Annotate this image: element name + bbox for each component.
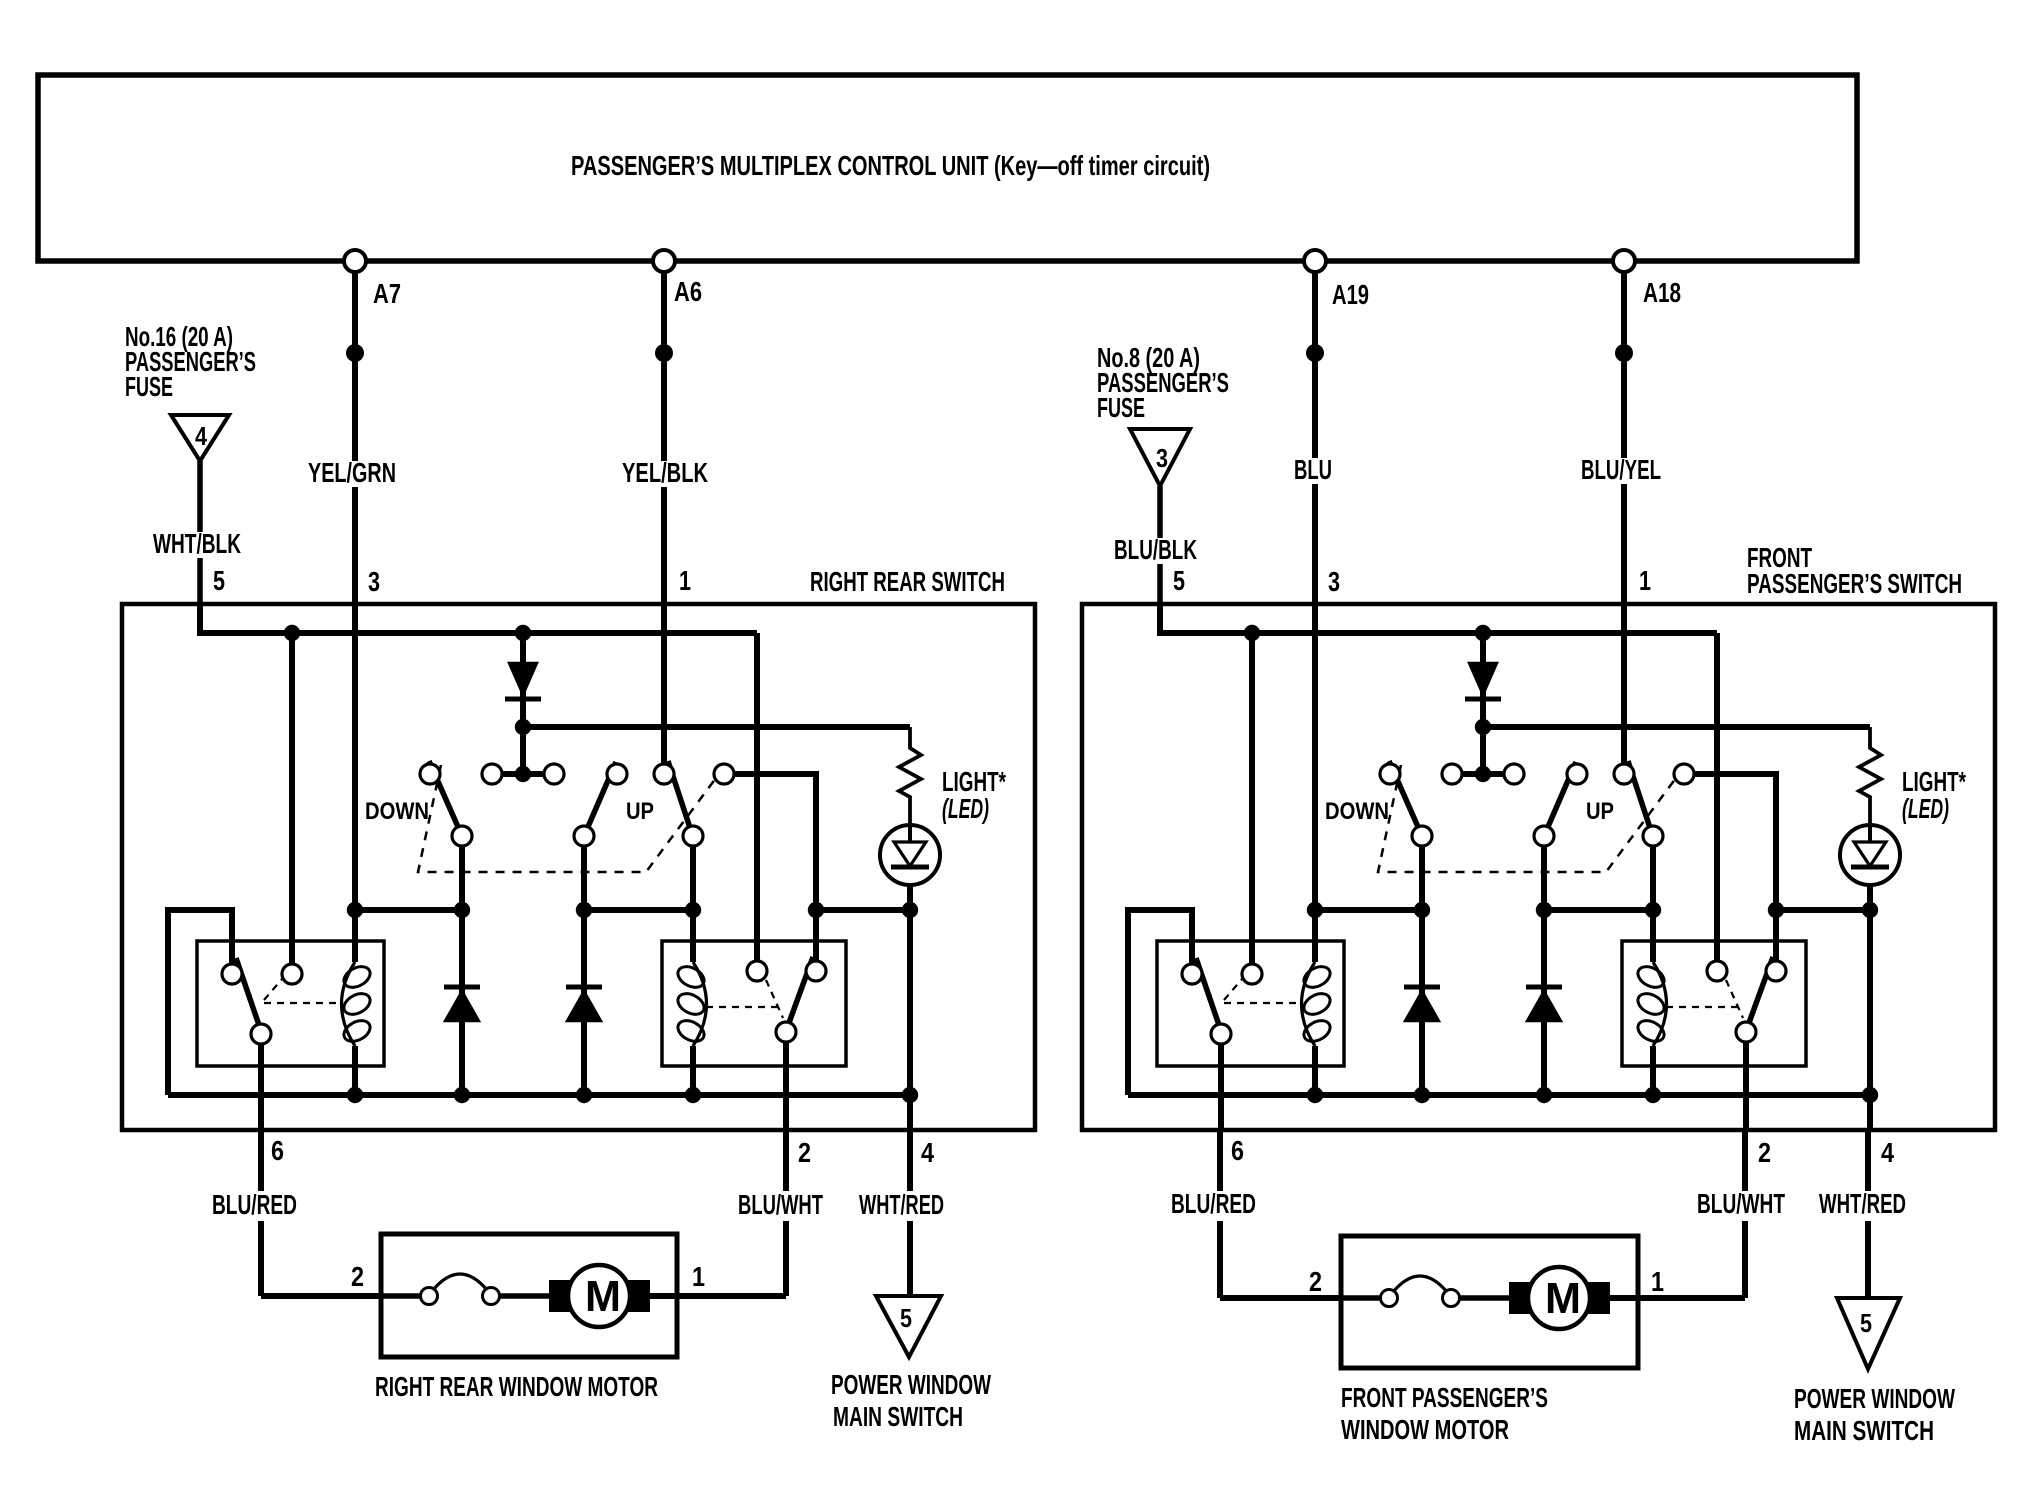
relay A lever — [1196, 958, 1221, 1031]
svg-text:BLU: BLU — [1294, 454, 1332, 485]
wire: ground bracket to relay A fixed contact — [168, 910, 232, 1095]
svg-text:M: M — [585, 1272, 621, 1321]
wire: relay A common to pin 6 — [1218, 1044, 1224, 1130]
svg-text:WINDOW MOTOR: WINDOW MOTOR — [1341, 1414, 1509, 1445]
diode D2 (pointing up) — [445, 991, 479, 1021]
rocker contact circles bottom row — [1412, 826, 1432, 846]
rocker switch lever UP — [1544, 762, 1576, 836]
svg-text:5: 5 — [213, 565, 225, 596]
relay A coil — [342, 962, 356, 1046]
wire link UP node to coil B node — [1544, 907, 1653, 913]
relay B box — [1622, 941, 1806, 1066]
rocker switch lever DOWN — [1389, 761, 1422, 836]
wire: diode branch from bus to rocker common — [520, 633, 526, 774]
relay B dashed actuation — [766, 980, 783, 1018]
wire: rocker right contact to relay B contact — [734, 774, 816, 960]
resistor for LED — [1859, 727, 1881, 825]
svg-text:PASSENGER’S SWITCH: PASSENGER’S SWITCH — [1747, 568, 1962, 599]
wire motor to pin 2 (BLU/WHT) — [1607, 1295, 1745, 1301]
relay A dashed actuation — [1224, 979, 1242, 1000]
wire: relay A coil feed from pin 3 — [352, 604, 358, 962]
rocker switch lever UP — [584, 762, 616, 836]
wire A19 from control unit to switch (colour BLU) — [1312, 272, 1318, 458]
junction coil B feed — [685, 902, 701, 918]
bottom bus junctions — [347, 1087, 363, 1103]
relay A coil — [1302, 962, 1316, 1046]
wire: DOWN contact to diode D2 and bottom bus — [1419, 846, 1425, 1095]
wire: relay B common to pin 2 — [1743, 1042, 1749, 1130]
svg-text:1: 1 — [1639, 565, 1651, 596]
svg-text:1: 1 — [679, 565, 691, 596]
fuse symbol 3 (triangle) — [1130, 429, 1190, 486]
diode D3 (pointing up) — [1527, 991, 1561, 1021]
junction coil A feed — [347, 902, 363, 918]
svg-text:MAIN SWITCH: MAIN SWITCH — [833, 1401, 963, 1432]
wire into motor breaker — [1341, 1295, 1380, 1301]
relay B coil — [693, 962, 707, 1046]
svg-text:BLU/RED: BLU/RED — [212, 1189, 297, 1220]
wire link UP node to coil B node — [584, 907, 693, 913]
dashed rocker actuator outline — [1378, 765, 1676, 872]
wire: pin 4 to main switch (WHT/RED) — [907, 1130, 913, 1191]
svg-text:PASSENGER’S MULTIPLEX CONTROL: PASSENGER’S MULTIPLEX CONTROL UNIT (Key—… — [571, 150, 1210, 181]
front passenger's window motor box — [1341, 1236, 1638, 1368]
svg-text:(LED): (LED) — [1902, 793, 1949, 824]
wire: pin 1 feed to rocker — [661, 604, 667, 765]
diode D2 (pointing up) — [1405, 991, 1439, 1021]
junction coil A feed — [1307, 902, 1323, 918]
svg-text:4: 4 — [1881, 1137, 1895, 1168]
rocker T-bar between centre contacts — [492, 771, 554, 777]
svg-text:DOWN: DOWN — [1325, 798, 1389, 825]
junction UP node — [1536, 902, 1552, 918]
bottom bus junctions — [1307, 1087, 1323, 1103]
svg-text:BLU/RED: BLU/RED — [1171, 1188, 1256, 1219]
wire: diode node across to LED resistor — [523, 724, 910, 730]
wire: pin 6 to motor (BLU/RED) — [1217, 1130, 1223, 1191]
resistor for LED — [899, 727, 921, 825]
svg-text:POWER WINDOW: POWER WINDOW — [831, 1369, 991, 1400]
svg-text:FUSE: FUSE — [1097, 392, 1145, 423]
wire A18 from control unit to switch (colour BLU/YEL) — [1621, 272, 1627, 458]
wire breaker to motor — [1460, 1295, 1512, 1301]
wire motor to pin 2 (BLU/WHT) — [647, 1293, 786, 1299]
junction diode output node — [1475, 719, 1491, 735]
wire: UP contact to diode D3 and bottom bus — [581, 846, 587, 1095]
junction LED node — [1862, 902, 1878, 918]
rocker switch lever right — [1628, 761, 1653, 837]
relay B lever — [786, 957, 813, 1031]
wire: rocker right bottom contact to relay B coil — [1650, 847, 1656, 962]
relay B lever — [1746, 957, 1773, 1031]
right rear window motor box — [381, 1234, 677, 1357]
svg-text:2: 2 — [1309, 1266, 1322, 1297]
wire: pin 6 to motor (BLU/RED) — [258, 1130, 264, 1191]
right rear switch enclosure — [122, 604, 1035, 1130]
svg-text:4: 4 — [195, 421, 207, 451]
svg-text:5: 5 — [900, 1303, 912, 1333]
svg-text:2: 2 — [1758, 1137, 1771, 1168]
rocker contact circles bottom row — [452, 826, 472, 846]
wire link relay B contact node to LED node — [1776, 907, 1870, 913]
diode D3 (pointing up) — [567, 991, 601, 1021]
svg-text:3: 3 — [1328, 566, 1340, 597]
rocker contact circles top row — [1380, 764, 1400, 784]
svg-text:A18: A18 — [1643, 277, 1681, 308]
wire: relay A coil to bottom bus — [1312, 1046, 1318, 1095]
svg-text:BLU/YEL: BLU/YEL — [1581, 454, 1661, 485]
junction on bus to relay A contact — [284, 625, 300, 641]
wire: inner bottom bus — [1128, 1092, 1870, 1098]
rocker contact circles top row — [420, 764, 440, 784]
relay B coil — [1653, 962, 1667, 1046]
relay A contact circles — [1182, 964, 1202, 984]
terminal circle A6 on control unit — [653, 250, 675, 272]
LED lamp symbol — [880, 825, 940, 885]
junction diode output node — [515, 719, 531, 735]
wire breaker to motor — [500, 1293, 552, 1299]
terminal circle A18 on control unit — [1613, 250, 1635, 272]
power window main switch connector triangle 5 — [876, 1296, 941, 1357]
circuit breaker (motor thermal protector) — [433, 1274, 487, 1290]
junction coil B feed — [1645, 902, 1661, 918]
wire: pin 4 to main switch (WHT/RED) — [1865, 1130, 1871, 1191]
svg-text:6: 6 — [271, 1135, 284, 1166]
multiplex control unit box — [38, 75, 1857, 261]
wire: bus corner down to relay B normally-open contact — [754, 633, 760, 960]
circuit breaker (motor thermal protector) — [1393, 1276, 1447, 1292]
relay A box — [1157, 941, 1344, 1066]
terminal circle A7 on control unit — [344, 250, 366, 272]
svg-text:BLU/WHT: BLU/WHT — [1697, 1188, 1785, 1219]
connector dot on wire A18 — [1615, 344, 1633, 362]
wire: pin 5 feed and inner top bus — [1160, 604, 1717, 633]
relay A box — [197, 941, 384, 1066]
svg-text:1: 1 — [1651, 1266, 1664, 1297]
connector dot on wire A7 — [346, 344, 364, 362]
junction DOWN node — [1414, 902, 1430, 918]
junction relay B contact node — [1768, 902, 1784, 918]
junction DOWN node — [454, 902, 470, 918]
svg-text:5: 5 — [1173, 565, 1185, 596]
terminal circle A19 on control unit — [1304, 250, 1326, 272]
wire: DOWN contact to diode D2 and bottom bus — [459, 846, 465, 1095]
svg-text:M: M — [1545, 1274, 1581, 1323]
motor M symbol — [549, 1280, 572, 1312]
svg-text:2: 2 — [351, 1261, 364, 1292]
svg-text:FUSE: FUSE — [125, 371, 173, 402]
wire: ground bracket to relay A fixed contact — [1128, 910, 1192, 1095]
junction UP node — [576, 902, 592, 918]
wire: pin 5 feed and inner top bus — [200, 604, 757, 633]
svg-text:WHT/RED: WHT/RED — [859, 1189, 944, 1220]
wire fuse to switch pin 5 (BLU/BLK) — [1157, 486, 1163, 538]
svg-text:A6: A6 — [674, 276, 702, 307]
motor M symbol — [1509, 1282, 1532, 1314]
svg-text:UP: UP — [1586, 798, 1614, 825]
rocker T-bar between centre contacts — [1452, 771, 1514, 777]
wire: inner bottom bus — [168, 1092, 910, 1098]
svg-text:RIGHT REAR WINDOW MOTOR: RIGHT REAR WINDOW MOTOR — [375, 1371, 658, 1402]
power window main switch connector triangle 5 — [1837, 1298, 1900, 1369]
svg-text:2: 2 — [798, 1137, 811, 1168]
svg-text:5: 5 — [1860, 1308, 1872, 1338]
svg-text:3: 3 — [368, 566, 380, 597]
svg-text:A19: A19 — [1332, 279, 1369, 310]
rocker switch lever right — [668, 761, 693, 837]
wire: pin 1 feed to rocker — [1621, 604, 1627, 765]
svg-text:MAIN SWITCH: MAIN SWITCH — [1794, 1415, 1934, 1446]
relay B box — [662, 941, 846, 1066]
wire: UP contact to diode D3 and bottom bus — [1541, 846, 1547, 1095]
wire: relay A coil to bottom bus — [352, 1046, 358, 1095]
junction on bus at diode feed — [1475, 625, 1491, 641]
svg-text:A7: A7 — [373, 278, 401, 309]
wire A7 from control unit to switch (colour YEL/GRN) — [352, 272, 358, 461]
LED lamp symbol — [1840, 825, 1900, 885]
junction on bus at diode feed — [515, 625, 531, 641]
wire link relay A node to DOWN node — [1315, 907, 1422, 913]
svg-text:4: 4 — [921, 1137, 935, 1168]
svg-text:6: 6 — [1231, 1135, 1244, 1166]
relay B contact circles — [747, 961, 767, 981]
svg-text:DOWN: DOWN — [365, 798, 429, 825]
diode D1 (pointing down) — [509, 663, 537, 695]
relay B contact circles — [1707, 961, 1727, 981]
svg-text:BLU/BLK: BLU/BLK — [1114, 534, 1197, 565]
junction relay B contact node — [808, 902, 824, 918]
wire link relay A node to DOWN node — [355, 907, 462, 913]
connector dot on wire A19 — [1306, 344, 1324, 362]
wire: rocker right contact to relay B contact — [1694, 774, 1776, 960]
wire: LED cathode down to pin 4 node — [1867, 885, 1873, 1130]
diode D1 (pointing down) — [1469, 663, 1497, 695]
relay B dashed actuation — [1726, 980, 1743, 1018]
svg-text:RIGHT REAR SWITCH: RIGHT REAR SWITCH — [810, 566, 1005, 597]
junction LED node — [902, 902, 918, 918]
svg-text:(LED): (LED) — [942, 793, 989, 824]
wire into motor breaker — [381, 1293, 421, 1299]
svg-text:POWER WINDOW: POWER WINDOW — [1794, 1383, 1955, 1414]
wire: diode node across to LED resistor — [1483, 724, 1870, 730]
svg-text:BLU/WHT: BLU/WHT — [738, 1189, 823, 1220]
svg-text:YEL/GRN: YEL/GRN — [308, 457, 396, 488]
wire: relay B common to pin 2 — [783, 1042, 789, 1130]
relay A contact circles — [222, 964, 242, 984]
wire: relay A common to pin 6 — [258, 1044, 264, 1130]
wire: rocker right bottom contact to relay B coil — [690, 847, 696, 962]
wire fuse to switch pin 5 (WHT/BLK) — [197, 461, 203, 532]
wire: bus down to relay A normally-open contact — [289, 633, 295, 963]
wire: relay A coil feed from pin 3 — [1312, 604, 1318, 962]
wire A6 from control unit to switch (colour YEL/BLK) — [661, 272, 667, 461]
wire link relay B contact node to LED node — [816, 907, 910, 913]
wire: bus down to relay A normally-open contact — [1249, 633, 1255, 963]
svg-text:FRONT PASSENGER’S: FRONT PASSENGER’S — [1341, 1382, 1548, 1413]
wire: diode branch from bus to rocker common — [1480, 633, 1486, 774]
relay A dashed actuation — [264, 979, 282, 1000]
svg-text:UP: UP — [626, 798, 654, 825]
svg-text:YEL/BLK: YEL/BLK — [622, 457, 708, 488]
relay A lever — [236, 958, 261, 1031]
svg-text:WHT/RED: WHT/RED — [1819, 1188, 1906, 1219]
connector dot on wire A6 — [655, 344, 673, 362]
wire: relay B coil to bottom bus — [1650, 1046, 1656, 1095]
wire: relay B coil to bottom bus — [690, 1046, 696, 1095]
rocker switch lever DOWN — [429, 761, 462, 836]
dashed rocker actuator outline — [418, 765, 716, 872]
svg-text:WHT/BLK: WHT/BLK — [153, 528, 241, 559]
svg-text:1: 1 — [692, 1261, 705, 1292]
fuse symbol 4 (triangle) — [171, 415, 229, 461]
wire: bus corner down to relay B normally-open contact — [1714, 633, 1720, 960]
junction on bus to relay A contact — [1244, 625, 1260, 641]
svg-text:3: 3 — [1156, 443, 1168, 473]
front passenger's switch enclosure — [1082, 604, 1995, 1130]
wire: LED cathode down to pin 4 node — [907, 885, 913, 1130]
